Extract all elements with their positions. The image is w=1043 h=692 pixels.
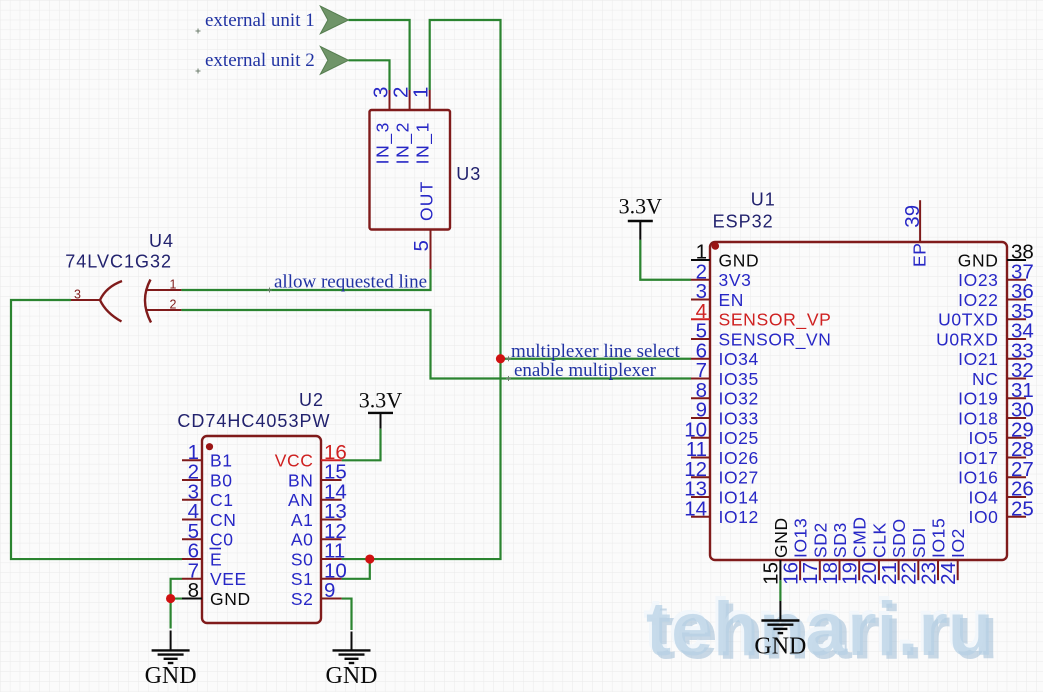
U2 pin 9 (S2) [321,598,342,600]
U4 pin 1 [146,289,182,291]
U1 pin 35 (U0TXD) [1007,318,1026,320]
svg-text:B0: B0 [210,470,233,490]
svg-text:GND: GND [210,589,251,609]
svg-text:IO16: IO16 [958,468,998,488]
U1 pin 30 (IO18) [1007,417,1026,419]
U1 pin 25 (IO0) [1007,516,1026,518]
svg-text:VEE: VEE [210,569,247,589]
svg-text:ESP32: ESP32 [713,212,774,232]
wire: external unit 2 to U3 IN_3 [349,60,390,90]
svg-text:CMD: CMD [850,516,870,558]
svg-text:SDI: SDI [909,527,929,558]
svg-text:U0TXD: U0TXD [938,310,998,330]
svg-text:A0: A0 [291,530,314,550]
svg-text:IO33: IO33 [719,408,759,428]
U1 pin 37 (IO23) [1007,279,1026,281]
svg-text:A1: A1 [291,510,314,530]
U1 pin 12 (IO27) [691,476,710,478]
svg-text:IO14: IO14 [719,487,759,507]
svg-text:IO12: IO12 [719,507,759,527]
svg-text:3.3V: 3.3V [359,388,403,413]
svg-text:S1: S1 [291,569,314,589]
svg-text:U4: U4 [149,231,174,251]
wire: U2 S2 to ground [342,599,352,630]
svg-text:U3: U3 [456,164,481,184]
U2 pin 3 (C1) [182,499,202,501]
U1 pin 14 (IO12) [691,516,710,518]
U1 pin 3 (EN) [691,299,710,301]
svg-text:CLK: CLK [869,522,889,558]
svg-text:E: E [210,549,222,569]
U1 pin 5 (SENSOR_VN) [691,338,710,340]
U2 pin 5 (C0) [182,538,202,540]
label anchor cross 1 [196,29,201,34]
svg-text:IO0: IO0 [968,507,998,527]
U1 pin 22 (SDI) bottom [917,560,919,580]
svg-text:IO25: IO25 [719,428,759,448]
U1 pin 26 (IO4) [1007,496,1026,498]
svg-text:IO5: IO5 [968,428,998,448]
U1 pin 4 (SENSOR_VP) [691,318,710,320]
U4 pin 2 [146,309,182,311]
label anchor cross 5 [506,356,511,361]
U2 pin 6 (E) [182,558,202,560]
svg-text:multiplexer line select: multiplexer line select [511,341,681,362]
U2 pin 1 (B1) [182,459,202,461]
svg-text:IO2: IO2 [948,528,968,558]
U3 pin 5 (OUT) [430,230,432,270]
svg-text:external unit 1: external unit 1 [205,10,315,31]
svg-text:IO18: IO18 [958,408,998,428]
U2 pin 13 (A1) [321,519,342,521]
U1 pin 2 (3V3) [691,279,710,281]
svg-text:GND: GND [958,250,999,270]
svg-text:IN_1: IN_1 [413,121,434,164]
svg-text:IO21: IO21 [958,349,998,369]
svg-text:39: 39 [901,205,924,228]
svg-text:S0: S0 [291,549,314,569]
svg-text:U1: U1 [751,190,776,210]
node C junction dot (U2 GND/VEE) [166,594,175,603]
wire: ESP32 pin 15 GND to ground [779,580,781,601]
svg-text:GND: GND [719,250,760,270]
U1 pin 32 (NC) [1007,378,1026,380]
svg-text:IO19: IO19 [958,389,998,409]
U3 pin 1 (IN_1) [429,90,431,110]
ground (U2 left, VEE/GND) [170,631,172,651]
svg-text:74LVC1G32: 74LVC1G32 [65,252,172,272]
watermark tehnari.ru [643,583,999,676]
U1 pin 36 (IO22) [1007,299,1026,301]
wire: U3 IN_1 up over to long vertical, down to node A and U2 S0 [342,20,501,559]
U1 pin 10 (IO25) [691,437,710,439]
ground (ESP32 pin 15) [779,601,781,621]
svg-text:IO34: IO34 [719,349,759,369]
svg-text:VCC: VCC [275,451,314,471]
U1 pin 39 (EP) top [919,200,921,242]
svg-text:GND: GND [754,634,806,660]
svg-text:U0RXD: U0RXD [936,329,998,349]
port external unit 1 [320,6,348,34]
ground (U2 right, S2) [351,632,353,651]
svg-text:SENSOR_VP: SENSOR_VP [719,310,832,331]
svg-text:8: 8 [188,579,199,602]
svg-text:IN_2: IN_2 [393,121,414,164]
svg-text:SDO: SDO [889,518,909,558]
U4 pin 3 (output) [71,299,100,301]
svg-text:S2: S2 [291,589,314,609]
U1 pin 9 (IO33) [691,417,710,419]
U1 pin 13 (IO14) [691,496,710,498]
port external unit 2 [320,46,348,74]
U1 pin 31 (IO19) [1007,397,1026,399]
U1 pin 11 (IO26) [691,457,710,459]
svg-text:3: 3 [74,288,81,302]
svg-text:1: 1 [410,87,433,98]
svg-text:3.3V: 3.3V [619,194,663,219]
svg-text:IO23: IO23 [958,270,998,290]
U1 pin 28 (IO17) [1007,457,1026,459]
svg-text:SENSOR_VN: SENSOR_VN [719,329,832,350]
U1 pin 23 (IO15) bottom [937,560,939,580]
svg-text:IO17: IO17 [958,448,998,468]
U1 pin 1 (GND) [691,259,710,261]
svg-text:25: 25 [1011,497,1034,520]
svg-text:AN: AN [288,490,314,510]
svg-text:5: 5 [410,240,433,251]
U1 pin 17 (SD2) bottom [819,560,821,580]
U2 pin 7 (VEE) [182,578,202,580]
U2 pin 4 (CN) [182,519,202,521]
svg-text:IO13: IO13 [791,518,811,558]
U3 pin 2 (IN_2) [409,90,411,110]
wire: 3.3V to U2 VCC pin 16 [342,429,381,461]
svg-text:IO35: IO35 [719,369,759,389]
svg-text:B1: B1 [210,451,233,471]
svg-text:EN: EN [719,290,745,310]
wire: external unit 1 to U3 IN_2 [349,20,410,90]
U1 pin 1 indicator dot [712,242,720,250]
svg-text:allow requested line: allow requested line [274,272,427,293]
U1 pin 38 (GND) [1007,259,1026,261]
svg-text:EP: EP [910,242,930,267]
op-amp style OR gate U4 74LVC1G32 body [100,280,151,323]
svg-text:NC: NC [972,369,998,389]
U2 pin 1 indicator dot [206,443,213,450]
wire: node A to ESP32 pin 6 multiplexer line select [501,358,692,360]
svg-text:9: 9 [324,579,335,602]
U1 pin 24 (IO2) bottom [957,560,959,580]
U1 pin 27 (IO16) [1007,476,1026,478]
U2 pin 8 (GND) [182,598,202,600]
U1 pin 7 (IO35) [691,378,710,380]
svg-text:BN: BN [288,470,314,490]
svg-text:IO26: IO26 [719,448,759,468]
svg-text:C0: C0 [210,530,234,550]
wire: U2 VEE to GND pin and ground [171,579,182,629]
U1 pin 34 (U0RXD) [1007,338,1026,340]
svg-text:enable multiplexer: enable multiplexer [514,360,657,381]
wire: U4 pin 3 output to U2 pin 6 E [11,300,182,559]
svg-text:IO15: IO15 [929,518,949,558]
svg-text:IO22: IO22 [958,290,998,310]
IC U1 ESP32 body [710,242,1007,560]
svg-text:C1: C1 [210,490,234,510]
wire: 3.3V to ESP32 3V3 pin 2 [640,240,691,280]
U1 pin 16 (IO13) bottom [799,560,801,580]
svg-text:CN: CN [210,510,236,530]
U1 pin 19 (CMD) bottom [858,560,860,580]
svg-text:OUT: OUT [416,180,436,221]
svg-text:tehnari.ru: tehnari.ru [646,587,994,672]
U1 pin 20 (CLK) bottom [878,560,880,580]
svg-text:2: 2 [170,298,177,312]
svg-text:IO4: IO4 [968,487,998,507]
U2 pin 15 (BN) [321,479,342,481]
U3 pin 3 (IN_3) [389,90,391,110]
U2 pin 14 (AN) [321,499,342,501]
svg-text:GND: GND [771,517,791,558]
U2 pin 10 (S1) [321,578,342,580]
svg-text:14: 14 [684,497,707,520]
svg-text:SD2: SD2 [810,522,830,558]
U2 pin 12 (A0) [321,538,342,540]
U1 pin 15 (GND) bottom [779,560,781,580]
label anchor cross 2 [196,69,201,74]
U1 pin 6 (IO34) [691,358,710,360]
node A junction dot [496,354,505,363]
U1 pin 33 (IO21) [1007,358,1026,360]
wire: U3 OUT down to allow requested line, to U4 pin 1 [181,269,430,290]
U1 pin 8 (IO32) [691,397,710,399]
U2 pin 16 (VCC) [321,459,342,461]
U1 pin 21 (SDO) bottom [898,560,900,580]
svg-text:CD74HC4053PW: CD74HC4053PW [177,411,330,431]
svg-text:3V3: 3V3 [719,270,752,290]
svg-text:IN_3: IN_3 [373,121,394,164]
svg-text:external unit 2: external unit 2 [205,50,315,71]
svg-text:IO32: IO32 [719,389,759,409]
svg-text:GND: GND [326,663,378,689]
IC U2 CD74HC4053PW body [202,436,321,623]
svg-text:GND: GND [145,663,197,689]
svg-text:SD3: SD3 [830,522,850,558]
svg-text:24: 24 [937,562,960,585]
label anchor cross 3 [267,288,272,293]
U2 pin 11 (S0) [321,558,342,560]
svg-text:1: 1 [170,278,177,292]
wire: U4 pin 2 to ESP32 pin 7 enable multiplexer [181,310,691,379]
wire: node B vertical S0 to S1 tie [342,559,370,579]
node B junction dot [365,554,374,563]
IC U3 multiplexer block body [370,110,451,230]
U1 pin 29 (IO5) [1007,437,1026,439]
label anchor cross 4 [506,376,511,381]
svg-text:U2: U2 [299,390,324,410]
svg-text:IO27: IO27 [719,468,759,488]
U2 pin 2 (B0) [182,479,202,481]
U1 pin 18 (SD3) bottom [839,560,841,580]
